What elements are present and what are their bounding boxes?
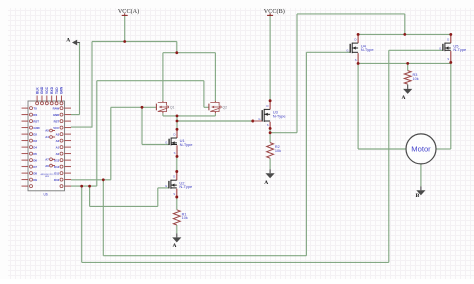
svg-text:D: D [355, 38, 357, 42]
svg-text:A0: A0 [56, 152, 60, 156]
svg-text:VCC(B): VCC(B) [264, 8, 285, 15]
svg-text:D: D [173, 133, 175, 137]
svg-text:10k: 10k [413, 77, 419, 81]
svg-text:D5: D5 [33, 152, 37, 156]
svg-text:RST: RST [33, 119, 39, 123]
svg-text:A: A [264, 180, 268, 186]
svg-text:D: D [267, 104, 269, 108]
svg-text:D11: D11 [54, 171, 59, 175]
svg-text:RAW: RAW [53, 106, 60, 110]
svg-text:S: S [355, 58, 357, 62]
svg-text:A: A [66, 37, 70, 43]
svg-text:GRN: GRN [60, 86, 64, 94]
svg-text:VCC(A): VCC(A) [118, 8, 139, 15]
svg-text:B: B [416, 193, 420, 199]
svg-text:G: G [439, 47, 441, 51]
svg-text:D7: D7 [33, 165, 37, 169]
svg-text:A2: A2 [56, 139, 60, 143]
svg-text:N-Type: N-Type [180, 142, 194, 147]
svg-text:A3: A3 [56, 132, 60, 136]
svg-text:G: G [258, 117, 260, 121]
svg-text:S: S [267, 123, 269, 127]
svg-text:RXD: RXD [50, 86, 54, 94]
svg-text:U6: U6 [44, 192, 48, 196]
svg-text:GND: GND [53, 113, 59, 117]
svg-text:A1: A1 [56, 145, 60, 149]
svg-text:10k: 10k [275, 149, 281, 153]
svg-text:A7: A7 [45, 158, 49, 162]
svg-text:A5: A5 [45, 129, 49, 133]
svg-text:S: S [174, 151, 176, 155]
svg-text:TXD: TXD [55, 87, 59, 94]
svg-text:D2: D2 [33, 132, 37, 136]
svg-text:A4: A4 [45, 135, 49, 139]
svg-text:N-Type: N-Type [179, 184, 193, 189]
svg-text:G: G [165, 141, 167, 145]
svg-text:A: A [402, 95, 406, 101]
svg-text:D3: D3 [33, 139, 37, 143]
svg-text:RX: RX [33, 113, 37, 117]
svg-text:D4: D4 [33, 145, 37, 149]
svg-text:MINI: MINI [45, 176, 49, 178]
svg-text:BLK: BLK [35, 87, 39, 94]
svg-text:S: S [447, 57, 449, 61]
svg-text:Q1: Q1 [170, 105, 175, 109]
svg-text:Motor: Motor [411, 145, 431, 154]
svg-text:N-Type: N-Type [453, 47, 467, 52]
svg-text:TX: TX [33, 106, 37, 110]
svg-text:GND: GND [40, 86, 44, 94]
svg-text:D9: D9 [33, 178, 37, 182]
svg-text:D6: D6 [33, 158, 37, 162]
svg-text:N-Type: N-Type [361, 47, 375, 52]
svg-text:D8: D8 [33, 171, 37, 175]
svg-text:D10: D10 [54, 178, 60, 182]
svg-text:RST: RST [54, 119, 60, 123]
svg-text:A6: A6 [45, 164, 49, 168]
svg-text:D: D [173, 175, 175, 179]
svg-text:D: D [447, 38, 449, 42]
svg-text:Q2: Q2 [223, 105, 228, 109]
svg-text:GND: GND [33, 126, 39, 130]
svg-text:10k: 10k [182, 216, 188, 220]
svg-text:N-Type: N-Type [273, 113, 287, 118]
svg-text:S: S [173, 192, 175, 196]
svg-text:VCC: VCC [45, 86, 49, 94]
svg-text:G: G [346, 49, 348, 53]
svg-text:G: G [165, 184, 167, 188]
svg-text:VCC: VCC [53, 126, 59, 130]
svg-text:A: A [173, 243, 177, 249]
